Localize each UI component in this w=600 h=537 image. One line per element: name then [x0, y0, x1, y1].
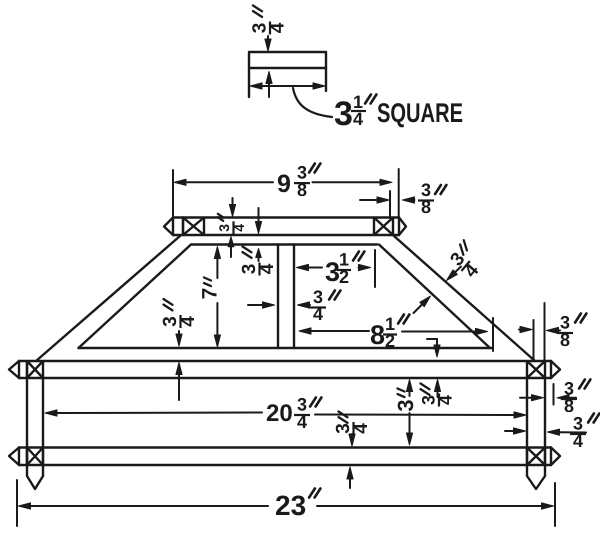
upper rail top edge [19, 360, 551, 362]
label 3/8 inch tenon right [561, 379, 577, 417]
3 inch gap down arrow [406, 413, 412, 445]
center post right edge [293, 245, 295, 349]
leg thickness arrow upper [447, 267, 462, 281]
lower rail left chamfer tip [9, 448, 19, 466]
svg-text:4: 4 [573, 431, 583, 451]
svg-text:4: 4 [353, 109, 363, 129]
7 inch dimension line lower segment with down arrow [214, 303, 220, 347]
top cleat right chamfer tip [399, 218, 406, 236]
svg-text:9: 9 [277, 170, 291, 198]
top cleat bar top edge [173, 216, 399, 218]
3-1/2 dimension line with arrows [297, 264, 371, 270]
3/8 tip extension line top right [389, 191, 391, 216]
8-1/2 dimension line right segment with arrow [402, 328, 488, 334]
label 3/4 inch post width right [570, 414, 586, 452]
svg-text:4: 4 [257, 263, 278, 274]
3-1/2 extension line [374, 250, 376, 287]
leg thickness arrow lower [414, 296, 431, 313]
rail thickness up arrow [347, 467, 353, 488]
strip thickness up arrow [256, 249, 262, 262]
9-3/8 dimension line with arrows [174, 179, 392, 185]
upper rail right chamfer tip [551, 361, 560, 378]
8-1/2 dimension line left segment with arrow [299, 328, 369, 334]
top strip piece bottom edge [249, 67, 326, 69]
post width dimension arrows [248, 302, 310, 308]
9-3/8 right extension line [398, 169, 400, 217]
label 3/4 inch post width [310, 287, 326, 324]
right leg inner edge [379, 245, 490, 349]
8-1/2 extension line on leg [492, 318, 494, 351]
upper cross strip line under cleat [191, 243, 377, 245]
left leg outer edge [36, 236, 180, 361]
right 3/8 rail arrows [519, 326, 560, 333]
9-3/8 left extension line [172, 170, 174, 216]
upper rail right shoulder [550, 361, 552, 378]
svg-text:8: 8 [421, 197, 431, 217]
label 3 inch (rotated) [393, 389, 418, 412]
svg-text:20: 20 [266, 400, 293, 427]
upper rail left tenon X-box [27, 361, 43, 378]
right 3/8 extension lines at rail [534, 303, 545, 360]
label 3/4 inch gap (rotated) [419, 384, 456, 407]
left end post chamfered bottom tip [27, 476, 43, 489]
lower rail top edge [19, 446, 551, 448]
svg-text:4: 4 [268, 22, 289, 33]
svg-text:3: 3 [325, 257, 340, 287]
upper rail right tenon X-box [527, 361, 545, 378]
svg-text:4: 4 [313, 304, 323, 324]
top cleat bar bottom edge [173, 234, 399, 236]
20-3/4 dimension line with arrows [45, 410, 526, 418]
lower rail bottom edge [19, 464, 551, 466]
svg-text:4: 4 [436, 395, 456, 405]
label 3/8 inch top right [418, 180, 434, 217]
width dimension line with outward arrows (3-1/4) [250, 83, 325, 89]
svg-text:3: 3 [334, 95, 353, 133]
3/8 tenon arrows right [520, 395, 576, 401]
lower rail left tenon X-box [27, 448, 43, 466]
leg thickness label 3/4 inch (rotated along leg) [446, 239, 492, 283]
23 right extension line [554, 483, 556, 526]
svg-text:8: 8 [370, 320, 385, 350]
top cleat left wedged tenon X-box [183, 218, 204, 236]
label 7 inch (rotated) [199, 278, 222, 300]
svg-text:23: 23 [275, 490, 306, 521]
down arrow to rail top near right leg [427, 339, 440, 357]
7 inch dimension line upper segment with up arrow [214, 247, 220, 279]
label 3/4 inch left strip (rotated) [160, 299, 199, 328]
center post left edge [277, 245, 279, 349]
svg-text:4: 4 [231, 224, 247, 232]
svg-text:3: 3 [393, 399, 418, 411]
23 left extension line [16, 480, 18, 526]
curved leader line to caption [293, 88, 332, 117]
lower cross strip line above rail [79, 347, 493, 349]
svg-text:8: 8 [297, 180, 307, 200]
upper rail left chamfer tip [9, 361, 19, 378]
left end post edges [27, 378, 43, 476]
label 3/4 inch (rotated) above piece [250, 6, 289, 35]
rail thickness down arrow [349, 434, 355, 446]
svg-text:2: 2 [385, 331, 395, 351]
label 3/8 inch at rail right [557, 313, 573, 351]
label 3-1/2 inch [325, 257, 340, 287]
rail thickness label 3/4 (rotated) above lower rail [333, 412, 372, 436]
3/4 gap up arrow [434, 380, 440, 398]
svg-text:3: 3 [216, 224, 232, 232]
lower rail right shoulder [550, 448, 552, 466]
3 inch gap up arrow [406, 380, 412, 397]
svg-text:4: 4 [178, 316, 199, 327]
label 20-3/4 inch [266, 400, 293, 427]
3/8 tenon extension line right [553, 384, 555, 405]
label 9-3/8 inch [277, 170, 291, 198]
svg-text:7: 7 [199, 288, 222, 300]
left strip down arrow [176, 331, 182, 346]
svg-text:4: 4 [351, 423, 372, 434]
upper rail bottom edge [19, 377, 551, 379]
cleat thickness up arrow [228, 237, 234, 257]
top cleat right wedged tenon X-box [374, 218, 393, 236]
label 23 inch [275, 490, 306, 521]
thickness up arrow to piece underside [266, 72, 272, 98]
lower rail right tenon X-box [527, 448, 545, 466]
label 3/4 inch inside cleat (rotated) [216, 214, 247, 235]
svg-text:SQUARE: SQUARE [377, 98, 463, 128]
leader arrow from 3/4 label down to piece top [265, 36, 271, 51]
cleat thickness down arrow [229, 198, 235, 217]
label 3/4 inch below cleat (rotated) [239, 247, 278, 276]
right end post edges [527, 378, 545, 476]
lower rail right chamfer tip [551, 448, 560, 466]
svg-text:2: 2 [339, 267, 349, 287]
svg-text:8: 8 [560, 330, 570, 350]
top strip piece outline (3-1/4 in square stock, side view) [249, 52, 326, 97]
left strip up arrow [176, 363, 182, 401]
label 8-1/2 inch [370, 320, 385, 350]
right end post chamfered bottom tip [527, 476, 545, 489]
top cleat left chamfer tip [164, 218, 173, 236]
strip thickness down arrow [255, 208, 261, 234]
3/8 tip dimension arrows [360, 197, 415, 203]
right leg outer edge [394, 236, 535, 361]
svg-text:4: 4 [297, 412, 307, 432]
post width arrows lower right [505, 428, 586, 435]
top cleat left shoulder line [182, 218, 184, 236]
left leg inner edge [79, 245, 192, 349]
23 dimension line with arrows [19, 503, 554, 509]
caption 3-1/4 in SQUARE [334, 92, 366, 133]
top cleat right shoulder line [398, 218, 400, 236]
